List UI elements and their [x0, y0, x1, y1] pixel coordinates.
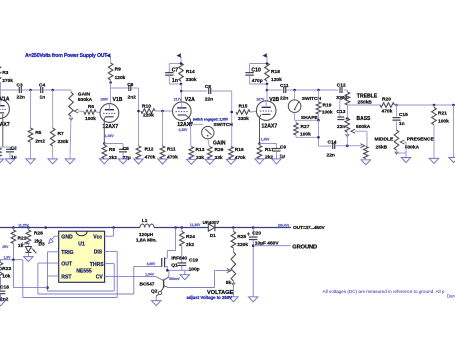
triode V2A: [173, 97, 196, 132]
wire: [395, 104, 455, 106]
resistor R20: [380, 97, 395, 115]
node junction: [433, 104, 436, 107]
node junction: [12, 258, 15, 261]
wire source: [166, 269, 192, 272]
svg-text:R25: R25: [237, 234, 246, 240]
svg-text:R28: R28: [34, 230, 43, 236]
svg-text:R14: R14: [186, 69, 195, 75]
ground: [272, 159, 281, 164]
svg-text:MIDDLE: MIDDLE: [375, 136, 394, 142]
power arrow: [262, 53, 267, 63]
power arrow: [176, 53, 181, 63]
svg-text:(39,4V): (39,4V): [278, 223, 289, 227]
wire: [180, 84, 182, 102]
node junction: [27, 226, 30, 229]
node junction: [112, 226, 115, 229]
resistor R25: [231, 228, 248, 253]
svg-text:R18: R18: [271, 69, 280, 75]
text volts: [2, 241, 30, 249]
svg-text:470p: 470p: [252, 78, 263, 84]
node junction: [181, 226, 184, 229]
svg-text:1,45V: 1,45V: [261, 138, 270, 142]
resistor R7: [50, 90, 68, 159]
text GAIN: [213, 141, 226, 147]
wire cathode: [104, 117, 113, 144]
wire drain: [167, 228, 175, 258]
svg-text:BC547: BC547: [140, 281, 155, 287]
svg-text:V1B: V1B: [113, 97, 123, 103]
svg-text:12AX7: 12AX7: [262, 124, 278, 130]
resistor R27: [294, 120, 311, 137]
svg-text:C11: C11: [280, 83, 289, 89]
potentiometer 5k: [226, 252, 236, 297]
resistor R21: [432, 105, 449, 158]
wire: [109, 83, 111, 104]
svg-text:R11: R11: [167, 146, 176, 152]
node junction: [109, 81, 112, 84]
resistor R15: [236, 104, 257, 122]
svg-text:25kB: 25kB: [376, 144, 388, 150]
svg-text:All voltages (DC) are measured: All voltages (DC) are measured in refere…: [323, 289, 445, 294]
svg-text:DIS: DIS: [94, 250, 103, 256]
svg-text:OUT=37...450V: OUT=37...450V: [293, 225, 325, 231]
svg-text:C14: C14: [328, 139, 337, 145]
wire: [168, 271, 229, 288]
svg-text:120k: 120k: [115, 75, 126, 81]
svg-text:470k: 470k: [167, 154, 178, 160]
wire wiper: [360, 144, 364, 148]
svg-text:220k: 220k: [58, 139, 69, 145]
wire: [397, 150, 407, 153]
resistor R10: [141, 104, 155, 119]
ground: [249, 297, 258, 302]
node junction: [293, 89, 296, 92]
ground: [229, 297, 238, 302]
resistor R28: [26, 228, 43, 247]
text OUT: [278, 223, 326, 231]
ground: [158, 159, 167, 164]
svg-text:5k: 5k: [226, 280, 232, 286]
svg-text:270k: 270k: [2, 78, 13, 84]
svg-text:R6: R6: [88, 104, 94, 110]
capacitor C9: [260, 144, 287, 160]
svg-text:C13: C13: [337, 109, 346, 115]
svg-text:11,38V: 11,38V: [190, 223, 201, 227]
wire: [0, 256, 23, 260]
svg-text:C7: C7: [172, 68, 179, 74]
text volts: [190, 223, 201, 227]
resistor R14: [179, 63, 197, 84]
resistor R8: [102, 145, 117, 161]
svg-text:1n: 1n: [40, 94, 46, 100]
svg-text:220k: 220k: [237, 242, 248, 248]
resistor R18: [265, 63, 282, 84]
wire: [43, 89, 71, 91]
svg-text:100k: 100k: [322, 110, 333, 116]
svg-text:NE555: NE555: [76, 269, 92, 275]
ground: [118, 159, 127, 164]
svg-text:1,34V: 1,34V: [145, 272, 154, 276]
svg-text:Q1: Q1: [171, 263, 178, 269]
svg-text:CV: CV: [96, 275, 104, 281]
svg-text:L1: L1: [142, 218, 148, 224]
svg-text:470k: 470k: [382, 109, 393, 115]
svg-text:2k2: 2k2: [186, 242, 194, 248]
svg-text:C8: C8: [205, 84, 211, 90]
node junction: [266, 89, 269, 92]
svg-text:R23: R23: [2, 266, 11, 272]
svg-text:RST: RST: [61, 274, 72, 280]
svg-text:250kB: 250kB: [358, 99, 373, 105]
svg-text:500kA: 500kA: [405, 145, 420, 151]
svg-text:C20: C20: [252, 230, 261, 236]
svg-text:R12: R12: [145, 146, 154, 152]
svg-text:R20: R20: [382, 97, 391, 103]
svg-text:470k: 470k: [235, 155, 246, 161]
svg-text:C5: C5: [123, 146, 129, 152]
svg-text:100k: 100k: [85, 116, 96, 122]
wire wiper: [351, 129, 367, 146]
ground: [226, 159, 235, 164]
svg-text:C2: C2: [11, 146, 17, 152]
text volts: [18, 224, 29, 228]
svg-text:Vcc: Vcc: [93, 235, 102, 241]
transistor Q1 IRF840: [162, 255, 188, 270]
ground: [152, 301, 161, 306]
svg-text:12AX7: 12AX7: [0, 122, 10, 128]
ground: [0, 301, 5, 306]
svg-text:2,35V: 2,35V: [179, 128, 189, 132]
svg-text:217V: 217V: [174, 98, 183, 102]
svg-text:25V: 25V: [2, 245, 9, 249]
potentiometer PRESENCE 500kA: [394, 130, 434, 154]
node junction: [346, 117, 349, 120]
wire wiper: [227, 269, 231, 273]
ground: [100, 159, 109, 164]
svg-text:100p: 100p: [189, 267, 200, 273]
resistor R9: [108, 63, 125, 83]
triode V1B: [100, 97, 123, 130]
svg-text:C3: C3: [17, 82, 23, 88]
wire RST: [48, 275, 59, 277]
node junction: [258, 142, 261, 145]
svg-text:Dani: Dani: [447, 294, 455, 299]
ground: [361, 160, 370, 165]
wire: [344, 117, 347, 120]
wire: [208, 139, 210, 147]
svg-text:C15: C15: [399, 112, 408, 118]
led D3: [25, 241, 45, 256]
ground: [26, 159, 35, 164]
svg-text:THRS: THRS: [90, 262, 104, 268]
svg-text:22n: 22n: [280, 95, 288, 101]
resistor R11: [160, 111, 178, 160]
capacitor C3: [17, 82, 25, 100]
svg-text:C19: C19: [189, 258, 198, 264]
triode V1A: [0, 90, 10, 128]
svg-text:R10: R10: [142, 104, 151, 110]
potentiometer GAIN 500kA: [69, 90, 93, 159]
wire rail: [215, 227, 291, 229]
node junction: [51, 89, 54, 92]
node junction: [252, 226, 255, 229]
svg-text:D1: D1: [210, 233, 216, 238]
svg-text:C18: C18: [0, 284, 9, 290]
wire: [131, 88, 138, 146]
svg-text:D3: D3: [39, 241, 45, 247]
node junction: [161, 110, 164, 113]
wire Vcc: [105, 228, 114, 237]
capacitor C11: [280, 83, 289, 102]
svg-text:R26: R26: [215, 147, 224, 153]
wire wiper: [74, 109, 84, 113]
wire: [253, 245, 290, 247]
svg-text:500kA: 500kA: [78, 97, 93, 103]
ground: [187, 159, 196, 164]
ground: [65, 159, 74, 164]
node junction: [189, 123, 192, 126]
svg-text:22n: 22n: [205, 96, 213, 102]
wire gate: [134, 262, 162, 266]
wire: [181, 90, 207, 92]
svg-text:R8: R8: [109, 147, 115, 153]
ground arrow: [49, 236, 59, 243]
svg-text:500kA: 500kA: [356, 124, 371, 130]
resistor R4: [0, 148, 4, 164]
svg-text:R3: R3: [2, 70, 8, 76]
node junction: [266, 83, 269, 86]
resistor R16: [229, 147, 246, 161]
node junction: [180, 90, 183, 93]
wire TRIG: [48, 252, 59, 291]
svg-text:GAIN: GAIN: [78, 91, 91, 97]
svg-text:22n: 22n: [327, 152, 335, 158]
node junction: [44, 226, 47, 229]
node junction: [252, 244, 255, 247]
svg-text:120k: 120k: [271, 77, 282, 83]
node junction: [452, 104, 455, 107]
node junction: [103, 134, 114, 145]
power arrow: [106, 53, 111, 63]
potentiometer BASS 500kA: [345, 105, 371, 146]
svg-text:R15: R15: [239, 104, 248, 110]
wire: [155, 110, 173, 112]
text engaged: [193, 117, 229, 121]
wire: [13, 260, 47, 288]
svg-text:580mV: 580mV: [169, 277, 180, 281]
wire: [453, 105, 455, 157]
svg-text:2k2: 2k2: [109, 155, 117, 161]
svg-text:33k: 33k: [196, 155, 204, 161]
wire: [0, 113, 10, 147]
node junction: [174, 226, 177, 229]
text SHAPE: [301, 115, 319, 121]
resistor R22: [11, 228, 27, 260]
node junction: [317, 89, 320, 92]
node junction: [346, 144, 349, 147]
wire: [267, 89, 282, 91]
node A supply text: [25, 53, 108, 59]
wire wiper: [400, 140, 406, 157]
wire OUT: [38, 263, 134, 294]
potentiometer MIDDLE 25kB: [364, 136, 394, 158]
node junction: [395, 104, 398, 107]
svg-text:IRF840: IRF840: [171, 255, 187, 261]
svg-text:220k: 220k: [143, 113, 154, 119]
svg-text:U1: U1: [78, 241, 85, 247]
wire cathode: [260, 114, 271, 143]
node junction: [230, 111, 233, 114]
svg-text:1,43V: 1,43V: [105, 134, 115, 138]
capacitor C15: [393, 105, 409, 130]
svg-text:R13: R13: [196, 147, 205, 153]
svg-text:R16: R16: [235, 147, 244, 153]
text note: [323, 289, 455, 299]
svg-text:2n2: 2n2: [128, 95, 137, 101]
wire: [191, 123, 203, 125]
svg-text:22n: 22n: [17, 94, 25, 100]
svg-text:OUT: OUT: [61, 262, 73, 268]
svg-text:22n: 22n: [337, 124, 345, 130]
node junction: [232, 226, 235, 229]
node junction: [46, 286, 49, 289]
svg-text:SWITCH: SWITCH: [214, 122, 234, 128]
svg-text:R17: R17: [265, 147, 274, 153]
svg-text:PRESENCE: PRESENCE: [407, 137, 435, 143]
node junction: [317, 136, 320, 139]
svg-text:V2B: V2B: [269, 97, 279, 103]
capacitor C2: [6, 146, 17, 161]
wire: [22, 89, 40, 91]
node junction: [180, 83, 183, 86]
svg-text:BASS: BASS: [357, 116, 372, 122]
svg-text:R24: R24: [186, 234, 195, 240]
capacitor C10: [245, 62, 268, 84]
wire rail: [0, 227, 140, 229]
svg-text:10k: 10k: [2, 273, 10, 279]
capacitor C7: [165, 62, 182, 84]
svg-text:330k: 330k: [238, 116, 249, 122]
wire: [344, 90, 348, 92]
wire CV: [105, 275, 156, 277]
resistor R13: [189, 124, 205, 161]
potentiometer TREBLE 250kB: [345, 92, 378, 105]
wire: [286, 89, 338, 91]
wire: [266, 84, 268, 101]
svg-text:switch engaged: 2,35V: switch engaged: 2,35V: [193, 117, 229, 121]
wire DIS: [23, 251, 117, 297]
svg-text:C10: C10: [251, 68, 261, 74]
text GROUND: [292, 244, 317, 250]
svg-text:R19: R19: [323, 103, 332, 109]
svg-text:TRIG: TRIG: [61, 250, 73, 256]
svg-text:2m2: 2m2: [35, 138, 45, 144]
svg-text:167V: 167V: [256, 98, 265, 102]
resistor R6: [84, 104, 100, 122]
svg-text:GAIN: GAIN: [213, 141, 226, 147]
svg-text:R7: R7: [58, 131, 64, 137]
wire: [111, 87, 128, 89]
switch SWITCH: [202, 122, 234, 139]
svg-text:C9: C9: [280, 145, 286, 151]
svg-text:33k: 33k: [215, 155, 223, 161]
svg-text:GND: GND: [61, 235, 73, 241]
capacitor C8: [205, 84, 213, 102]
wire: [294, 113, 296, 121]
capacitor C6: [127, 82, 136, 101]
node junction: [137, 110, 140, 113]
svg-text:330k: 330k: [186, 77, 197, 83]
wire: [211, 91, 232, 147]
resistor R17: [257, 146, 274, 161]
wire rail: [154, 227, 208, 229]
svg-text:GROUND: GROUND: [292, 244, 317, 250]
node junction: [12, 226, 15, 229]
svg-text:470k: 470k: [145, 154, 156, 160]
resistor R5: [28, 90, 45, 159]
ground: [5, 159, 14, 164]
wire: [348, 104, 381, 106]
capacitor C12: [336, 83, 347, 102]
capacitor C4: [39, 82, 45, 100]
ground: [205, 159, 214, 164]
capacitor C20: [247, 228, 279, 297]
triode V2B: [256, 97, 279, 142]
capacitor C19: [177, 246, 199, 272]
node junction: [317, 119, 320, 122]
ground: [449, 158, 455, 163]
wire: [296, 120, 319, 146]
svg-text:UF4007: UF4007: [203, 220, 220, 225]
ground: [401, 158, 410, 163]
svg-text:1n: 1n: [172, 78, 178, 84]
ic U1 NE555: [59, 231, 105, 282]
svg-text:R21: R21: [438, 111, 447, 117]
wire: [335, 145, 362, 147]
svg-text:100k: 100k: [300, 131, 311, 137]
svg-text:C12: C12: [337, 83, 346, 89]
svg-text:1n: 1n: [399, 121, 405, 127]
ground: [255, 159, 264, 164]
wire cathode: [178, 115, 191, 124]
svg-text:1,8A Min.: 1,8A Min.: [136, 238, 157, 244]
svg-text:V1A: V1A: [0, 96, 10, 102]
resistor R12: [136, 146, 155, 161]
capacitor C13: [337, 109, 346, 130]
wire THRS: [48, 264, 115, 291]
diode D1 UF4007: [203, 220, 220, 238]
svg-text:12AX7: 12AX7: [103, 124, 119, 130]
ground: [180, 270, 189, 279]
svg-text:C4: C4: [39, 82, 45, 88]
svg-text:A=250Volts from Power Supply O: A=250Volts from Power Supply OUT: [25, 53, 108, 59]
svg-text:adjust Voltage to 250V: adjust Voltage to 250V: [186, 295, 232, 300]
svg-text:1,8V: 1,8V: [4, 256, 12, 260]
ground: [48, 159, 57, 164]
text VOLTAGE: [186, 290, 233, 300]
svg-text:4,86V: 4,86V: [147, 262, 156, 266]
svg-text:C6: C6: [127, 82, 133, 88]
capacitor C5: [104, 144, 131, 161]
inductor L1: [136, 218, 157, 244]
svg-text:TREBLE: TREBLE: [357, 93, 378, 99]
svg-text:R9: R9: [115, 66, 121, 72]
resistor R3: [0, 66, 13, 90]
transistor Q2 BC547: [140, 270, 181, 300]
svg-text:120µH: 120µH: [139, 232, 154, 238]
capacitor C18: [0, 284, 9, 302]
wire wiper: [340, 96, 344, 117]
